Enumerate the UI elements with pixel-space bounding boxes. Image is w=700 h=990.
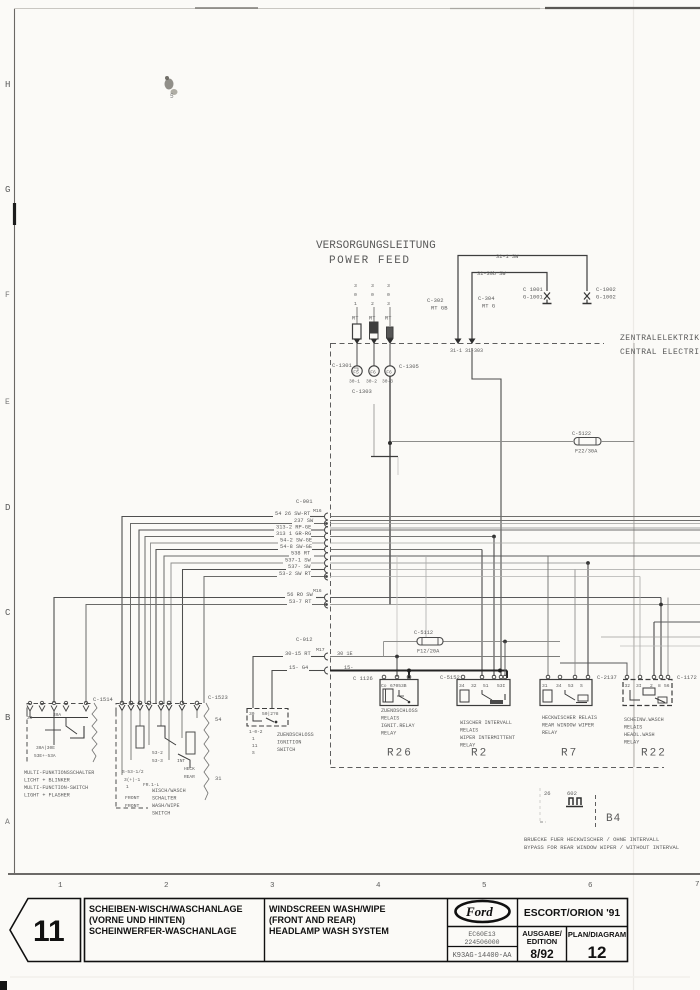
left border line <box>14 9 16 873</box>
svg-text:15- G4: 15- G4 <box>289 665 308 671</box>
svg-text:8/92: 8/92 <box>530 947 554 961</box>
wire 54-8 SW-GE <box>156 544 482 703</box>
pin circles <box>382 675 411 679</box>
bypass bridge B4 group <box>524 788 679 851</box>
wiring bus group <box>54 498 700 708</box>
sheet arrow pentagon 11 <box>10 899 81 962</box>
svg-text:F22/30A: F22/30A <box>575 449 598 455</box>
svg-text:F5: F5 <box>353 369 359 375</box>
svg-text:C-5122: C-5122 <box>572 431 591 437</box>
entry arrow 3 <box>387 339 394 345</box>
svg-text:S: S <box>252 750 255 756</box>
svg-text:54-2 SW-GE: 54-2 SW-GE <box>280 537 312 543</box>
ignition switch group <box>247 709 314 757</box>
svg-text:BYPASS FOR REAR WINDOW WIPER /: BYPASS FOR REAR WINDOW WIPER / WITHOUT I… <box>524 844 679 851</box>
dashed box top edge <box>331 343 604 345</box>
svg-text:31-1 31-303: 31-1 31-303 <box>450 348 483 354</box>
scan smudge <box>165 76 178 100</box>
svg-text:0: 0 <box>354 292 357 298</box>
scan fold line <box>633 0 635 990</box>
power feed right branch group <box>427 254 616 676</box>
pin arrows <box>27 706 89 712</box>
svg-text:POWER FEED: POWER FEED <box>329 255 411 267</box>
contact <box>565 690 575 700</box>
svg-text:313 1 GR-RG: 313 1 GR-RG <box>276 531 311 537</box>
svg-text:PLAN/DIAGRAM: PLAN/DIAGRAM <box>568 930 626 939</box>
fuse terminal 2 <box>370 322 379 333</box>
svg-text:C-1301: C-1301 <box>332 362 353 369</box>
svg-text:53-2 SW RT: 53-2 SW RT <box>279 571 311 577</box>
svg-text:SCHALTER: SCHALTER <box>152 796 176 802</box>
svg-text:1: 1 <box>354 301 357 307</box>
svg-text:Ford: Ford <box>465 904 493 919</box>
svg-text:RT: RT <box>369 316 375 322</box>
svg-text:313-2 RP-GE: 313-2 RP-GE <box>276 524 311 530</box>
svg-text:IGNIT.RELAY: IGNIT.RELAY <box>381 723 415 729</box>
svg-text:C-1172: C-1172 <box>677 674 697 681</box>
svg-text:8: 8 <box>658 683 661 689</box>
power feed section <box>316 240 436 267</box>
svg-text:30-15 RT: 30-15 RT <box>285 651 311 657</box>
svg-text:HEADL.WASH: HEADL.WASH <box>624 732 655 738</box>
svg-text:30: 30 <box>249 711 255 717</box>
svg-text:1: 1 <box>126 784 129 790</box>
svg-text:R26: R26 <box>387 748 413 760</box>
svg-text:53-7 RT: 53-7 RT <box>289 599 311 605</box>
svg-text:50|2?8: 50|2?8 <box>262 711 279 717</box>
wire 237 SW <box>131 518 700 703</box>
svg-text:0: 0 <box>387 292 390 298</box>
svg-text:HECK: HECK <box>184 766 195 772</box>
wire 54 26 SW-RT <box>122 511 700 703</box>
fuse body C-5122 <box>574 438 601 446</box>
fuse circle F6 <box>373 344 375 366</box>
svg-text:CENTRAL ELECTRIC: CENTRAL ELECTRIC <box>620 348 700 357</box>
svg-text:32: 32 <box>625 683 631 689</box>
wiper wash switch C-1523 <box>116 694 228 817</box>
svg-text:RELAIS: RELAIS <box>381 716 399 722</box>
scan streak <box>10 976 690 978</box>
wire F6 down to T-bar <box>373 404 375 456</box>
relay R22 group <box>623 674 697 760</box>
wire vertical x426 <box>425 556 427 641</box>
relay R2 group <box>440 674 515 760</box>
dashed housing <box>116 704 204 713</box>
svg-text:34: 34 <box>556 683 562 689</box>
svg-text:B: B <box>5 713 11 723</box>
svg-text:30-2: 30-2 <box>366 379 377 385</box>
svg-text:3I: 3I <box>636 683 642 689</box>
svg-text:REAR WINDOW WIPER: REAR WINDOW WIPER <box>542 723 594 729</box>
svg-text:224506000: 224506000 <box>464 939 499 946</box>
wire 56 RO SW <box>54 592 661 703</box>
svg-text:C-012: C-012 <box>296 636 313 643</box>
svg-text:RELAY: RELAY <box>381 731 396 737</box>
svg-text:5: 5 <box>482 882 487 890</box>
svg-text:30-1: 30-1 <box>349 379 360 385</box>
svg-text:HECKWISCHER RELAIS: HECKWISCHER RELAIS <box>542 715 597 721</box>
svg-text:R2: R2 <box>471 748 488 760</box>
pin circles row <box>120 701 199 705</box>
svg-text:RELAY: RELAY <box>624 740 639 746</box>
wire 15-G4 <box>272 665 507 708</box>
wire 54-2 SW-GE <box>151 537 700 703</box>
svg-text:K93AG-14400-AA: K93AG-14400-AA <box>453 952 513 960</box>
svg-text:1: 1 <box>58 882 63 890</box>
Ford logo <box>456 901 510 922</box>
wire 537- SW <box>183 564 700 703</box>
coil <box>543 690 552 702</box>
svg-text:FRONT: FRONT <box>125 803 140 809</box>
svg-text:2: 2 <box>164 882 169 890</box>
wire stub 3 <box>389 307 391 326</box>
wire 53-2 SW RT <box>204 571 640 703</box>
svg-text:F6: F6 <box>386 369 392 375</box>
fuse circle F5 <box>356 344 358 366</box>
svg-text:C-1305: C-1305 <box>399 363 419 370</box>
svg-text:A: A <box>5 818 10 827</box>
entry arrow 2 <box>371 339 378 345</box>
svg-text:C-2137: C-2137 <box>597 674 617 681</box>
svg-text:C-1514: C-1514 <box>93 696 114 703</box>
svg-text:3: 3 <box>354 283 357 289</box>
svg-text:34: 34 <box>459 683 465 689</box>
wire down to R26 <box>383 642 385 657</box>
svg-text:ZUENDSCHLOSS: ZUENDSCHLOSS <box>277 732 314 738</box>
junction node <box>388 441 392 445</box>
svg-text:5: 5 <box>170 93 174 100</box>
svg-text:3: 3 <box>371 283 374 289</box>
svg-text:26: 26 <box>544 790 551 797</box>
T-bar terminal <box>371 456 398 458</box>
svg-text:MULTI-FUNKTIONSSCHALTER: MULTI-FUNKTIONSSCHALTER <box>24 770 94 776</box>
svg-text:REAR: REAR <box>184 774 195 780</box>
svg-text:LIGHT + FLASHER: LIGHT + FLASHER <box>24 793 70 799</box>
wire vertical x640 <box>639 577 641 677</box>
pin circles <box>461 675 507 679</box>
svg-text:31: 31 <box>542 683 548 689</box>
multifunction switch C-1514 <box>24 696 114 799</box>
svg-text:G: G <box>5 185 10 195</box>
box right edge <box>633 343 635 767</box>
wire 538 RT <box>164 550 700 703</box>
contact block right <box>186 732 195 754</box>
svg-text:602: 602 <box>567 790 577 797</box>
svg-text:(FRONT AND REAR): (FRONT AND REAR) <box>269 915 356 925</box>
svg-text:3: 3 <box>270 882 275 890</box>
wire branch y646 <box>620 645 700 647</box>
inner wiring verticals <box>122 711 197 776</box>
title block <box>10 899 628 963</box>
svg-text:S-53-1/2: S-53-1/2 <box>122 769 144 775</box>
svg-text:53E+-53A: 53E+-53A <box>34 753 56 759</box>
svg-text:E: E <box>5 398 10 407</box>
wire row to right edge A <box>330 520 700 522</box>
svg-text:ZENTRALELEKTRIK: ZENTRALELEKTRIK <box>620 334 700 343</box>
svg-text:RT G: RT G <box>482 303 495 310</box>
pin circles <box>28 701 87 704</box>
internal contact bar <box>30 717 88 719</box>
contact glyph <box>253 715 262 721</box>
svg-text:C 1001: C 1001 <box>523 286 544 293</box>
fuse terminal 3 <box>387 327 394 338</box>
wire stub 2 <box>373 307 375 322</box>
svg-text:54: 54 <box>215 717 221 723</box>
svg-text:RELAIS: RELAIS <box>460 728 478 734</box>
entry arrow 1 <box>354 339 361 345</box>
svg-text:67053B: 67053B <box>390 683 407 689</box>
svg-text:M16: M16 <box>313 588 322 594</box>
svg-text:51: 51 <box>483 683 489 689</box>
svg-text:31-30b SW: 31-30b SW <box>477 271 506 277</box>
pin arrows row <box>119 705 200 711</box>
wire verticals into R7 <box>547 556 549 676</box>
svg-text:EC60E13: EC60E13 <box>468 931 495 938</box>
corner ink blob <box>0 981 7 990</box>
svg-text:7: 7 <box>695 881 700 889</box>
title cells outline <box>85 899 628 962</box>
fuse body C-5112 <box>417 638 443 646</box>
power feed fuse stack group <box>332 283 419 605</box>
svg-text:FRONT: FRONT <box>125 795 140 801</box>
svg-text:F6: F6 <box>370 369 376 375</box>
svg-text:SCHEIBEN-WISCH/WASCHANLAGE: SCHEIBEN-WISCH/WASCHANLAGE <box>89 904 243 914</box>
svg-text:C-304: C-304 <box>478 295 495 302</box>
svg-text:30A|30E: 30A|30E <box>36 745 55 751</box>
ground G-1001 <box>543 293 552 304</box>
svg-text:C 1126: C 1126 <box>353 675 373 682</box>
ground G-1002 <box>583 293 592 304</box>
svg-text:M16: M16 <box>313 508 322 514</box>
wire 53-7 RT <box>86 599 700 703</box>
svg-text:3: 3 <box>387 283 390 289</box>
coil <box>643 688 655 695</box>
contact <box>630 690 640 700</box>
svg-text:C-901: C-901 <box>296 498 313 505</box>
svg-text:MULTI-FUNCTION-SWITCH: MULTI-FUNCTION-SWITCH <box>24 785 88 791</box>
svg-text:6: 6 <box>588 882 593 890</box>
svg-text:2: 2 <box>371 301 374 307</box>
connector junction dots <box>325 522 328 525</box>
relay R26 group <box>353 675 418 760</box>
svg-text:B4: B4 <box>606 813 621 825</box>
svg-text:53-2: 53-2 <box>152 750 163 756</box>
svg-text:G-1002: G-1002 <box>596 294 616 301</box>
wire 313-2 RP-GE <box>139 524 700 703</box>
svg-text:RELAIS: RELAIS <box>624 725 642 731</box>
dashed box left edge <box>330 343 332 767</box>
wire into R22 y663 <box>560 663 627 676</box>
svg-text:11: 11 <box>252 743 258 749</box>
svg-text:WISCH/WASCH: WISCH/WASCH <box>152 788 186 794</box>
svg-text:HEADLAMP WASH SYSTEM: HEADLAMP WASH SYSTEM <box>269 926 389 936</box>
svg-text:30 1E: 30 1E <box>337 651 353 657</box>
torn zigzag edge <box>204 703 209 800</box>
svg-text:INT: INT <box>177 758 185 764</box>
svg-text:C: C <box>5 608 11 618</box>
wire 313 1 GR-RG <box>145 531 496 703</box>
svg-text:WIPER INTERMITTENT: WIPER INTERMITTENT <box>460 735 515 741</box>
svg-text:4: 4 <box>376 882 381 890</box>
svg-text:237 SW: 237 SW <box>294 518 314 524</box>
svg-text:M17: M17 <box>316 647 325 653</box>
fuse terminal 1 <box>353 324 362 339</box>
svg-text:(VORNE UND HINTEN): (VORNE UND HINTEN) <box>89 915 185 925</box>
wire 30-15 RT <box>253 556 560 708</box>
svg-text:53: 53 <box>568 683 574 689</box>
main feed wire 30-3 down <box>389 377 391 605</box>
dashed outline <box>595 795 597 828</box>
svg-text:ESCORT/ORION '91: ESCORT/ORION '91 <box>524 908 621 919</box>
svg-text:Co: Co <box>381 683 387 689</box>
wire 31-1 SW <box>458 256 587 340</box>
svg-text:BRUECKE FUER HECKWISCHER / OHN: BRUECKE FUER HECKWISCHER / OHNE INTERVAL… <box>524 836 659 843</box>
fuse C-5112 group <box>384 630 561 676</box>
wire row to right edge B <box>330 527 700 529</box>
wire down to R2 <box>504 642 506 677</box>
mid right wires group <box>330 521 700 677</box>
relay housing <box>540 680 592 706</box>
svg-text:54-8 SW-GE: 54-8 SW-GE <box>280 544 312 550</box>
entry arrow C-304 <box>469 339 476 345</box>
svg-text:15-: 15- <box>344 665 353 671</box>
svg-text:G-1001: G-1001 <box>523 294 544 301</box>
central electric dashed box <box>331 334 700 768</box>
svg-text:0: 0 <box>371 292 374 298</box>
svg-text:C-1523: C-1523 <box>208 694 228 701</box>
wire branch y637 <box>601 636 700 638</box>
svg-text:SWITCH: SWITCH <box>277 747 295 753</box>
svg-text:EDITION: EDITION <box>527 937 557 946</box>
svg-text:SCHEINWERFER-WASCHANLAGE: SCHEINWERFER-WASCHANLAGE <box>89 926 237 936</box>
svg-text:RT GB: RT GB <box>431 305 448 312</box>
svg-text:RT: RT <box>352 316 358 322</box>
svg-text:R7: R7 <box>561 748 578 760</box>
wire vertical into R22 <box>667 598 669 677</box>
contact <box>399 690 408 701</box>
pin circles <box>625 675 670 679</box>
svg-text:C-5112: C-5112 <box>414 630 433 636</box>
svg-text:WASH/WIPE: WASH/WIPE <box>152 803 180 809</box>
svg-text:1: 1 <box>252 736 255 742</box>
svg-text:32: 32 <box>471 683 477 689</box>
svg-text:SWITCH: SWITCH <box>152 811 170 817</box>
svg-text:538 RT: 538 RT <box>291 550 310 556</box>
entry arrow C-302 <box>455 339 462 345</box>
wire C-304 continuation inside box <box>472 348 501 676</box>
svg-text:56: 56 <box>664 683 670 689</box>
wire 31-30b SW <box>472 273 547 340</box>
wire fuse to box edge <box>601 441 634 443</box>
svg-text:C-1002: C-1002 <box>596 286 616 293</box>
dashed box bottom edge <box>331 767 665 769</box>
svg-text:WISCHER INTERVALL: WISCHER INTERVALL <box>460 720 512 726</box>
svg-text:VERSORGUNGSLEITUNG: VERSORGUNGSLEITUNG <box>316 240 436 252</box>
svg-text:12: 12 <box>588 943 607 962</box>
bottom drawing border <box>8 873 700 875</box>
svg-text:RT: RT <box>385 316 391 322</box>
torn zigzag edge <box>92 703 97 762</box>
relay R7 group <box>540 674 617 760</box>
svg-text:56 RO SW: 56 RO SW <box>287 592 313 598</box>
svg-text:D: D <box>5 503 10 513</box>
relay housing <box>380 680 418 706</box>
housing <box>247 709 288 727</box>
svg-text:F: F <box>5 291 10 300</box>
svg-text:537- SW: 537- SW <box>288 564 311 570</box>
svg-text:C-302: C-302 <box>427 297 444 304</box>
internal switch contact <box>29 711 31 718</box>
svg-text:LICHT + BLINKER: LICHT + BLINKER <box>24 778 70 784</box>
svg-text:3(+)-1: 3(+)-1 <box>124 777 141 783</box>
svg-text:SCHEINW.WASCH: SCHEINW.WASCH <box>624 717 664 723</box>
svg-text:S: S <box>580 683 583 689</box>
pin circles <box>546 675 590 679</box>
svg-text:R22: R22 <box>641 748 667 760</box>
wire 537-1 SW <box>171 557 590 703</box>
svg-text:53-3: 53-3 <box>152 758 163 764</box>
svg-text:1-0-2: 1-0-2 <box>249 729 263 735</box>
svg-text:H: H <box>5 80 10 90</box>
wire branch to R22 y622 <box>654 621 700 623</box>
relay housing <box>457 680 510 706</box>
coil <box>460 690 469 702</box>
fuse C-5122 group <box>392 431 634 455</box>
contact block left <box>136 726 144 748</box>
top border line <box>14 8 700 10</box>
svg-text:31-1 SW: 31-1 SW <box>496 254 519 260</box>
svg-text:ZUENDSCHLOSS: ZUENDSCHLOSS <box>381 708 418 714</box>
svg-text:11: 11 <box>33 915 65 948</box>
fuse circle F6b <box>389 344 391 366</box>
svg-text:WINDSCREEN WASH/WIPE: WINDSCREEN WASH/WIPE <box>269 904 386 914</box>
svg-text:537-1 SW: 537-1 SW <box>285 557 311 563</box>
dashed housing <box>27 704 92 713</box>
svg-text:RELAY: RELAY <box>542 730 557 736</box>
svg-text:30-3: 30-3 <box>382 379 393 385</box>
coil box <box>383 689 393 702</box>
contact <box>482 690 492 700</box>
wire to fuse <box>392 441 573 443</box>
bridge plug glyph <box>566 798 583 807</box>
svg-text:IGNITION: IGNITION <box>277 740 301 746</box>
wire to fuse <box>384 641 561 643</box>
relay housing dashed <box>623 680 672 706</box>
svg-text:53I: 53I <box>497 683 506 689</box>
svg-text:F12/20A: F12/20A <box>417 649 440 655</box>
svg-text:3: 3 <box>387 301 390 307</box>
svg-text:54 26 SW-RT: 54 26 SW-RT <box>275 511 310 517</box>
wire stub 1 <box>356 307 358 324</box>
junction node <box>503 640 507 644</box>
svg-text:C-1303: C-1303 <box>352 388 372 395</box>
svg-text:31: 31 <box>215 776 221 782</box>
